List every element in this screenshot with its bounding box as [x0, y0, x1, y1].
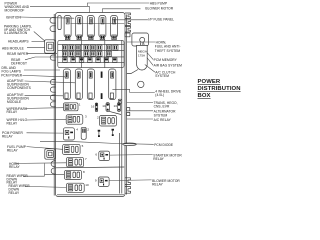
- svg-text:RELAY: RELAY: [9, 165, 20, 169]
- side connector C1 (headlamps/ABS feed): [45, 40, 56, 53]
- right mounting clip 5: [125, 187, 131, 194]
- side connector C2 (fuel pump feed): [45, 149, 56, 159]
- svg-text:I/P FUSE PANEL: I/P FUSE PANEL: [148, 17, 174, 21]
- left mounting clip 3: [50, 55, 55, 60]
- svg-text:8: 8: [83, 170, 85, 174]
- left mounting clip 4: [50, 80, 55, 85]
- wire: stud link: [141, 42, 143, 45]
- left mounting clip 2: [50, 26, 56, 32]
- right edge tab A: [125, 33, 130, 37]
- title: [198, 79, 241, 99]
- svg-text:THEFT SYSTEM: THEFT SYSTEM: [155, 49, 181, 53]
- wire: I/P fuse panel lead: [112, 19, 148, 21]
- right mounting clip 3: [125, 26, 131, 32]
- svg-text:4: 4: [76, 128, 78, 132]
- svg-text:POWER: POWER: [198, 79, 221, 85]
- wire: ignition lead: [20, 17, 74, 18]
- wire: PCM power relay lead: [27, 132, 64, 134]
- svg-text:13: 13: [114, 104, 118, 108]
- spring clip lower: [51, 168, 56, 174]
- right mounting clip 2: [125, 20, 131, 26]
- svg-text:MOONROOF: MOONROOF: [5, 8, 25, 12]
- maxi fuse slot M5: [111, 16, 118, 40]
- spare terminal marks: [101, 72, 103, 78]
- svg-text:CNS, EVR: CNS, EVR: [154, 105, 170, 109]
- wire: rear wiper down relay lead 2: [25, 186, 67, 187]
- wire: blower motor relay lead: [109, 179, 152, 182]
- wire: PCM diode lead: [120, 143, 154, 146]
- svg-text:2: 2: [97, 115, 99, 119]
- relay cavity slot S2: [75, 69, 82, 100]
- relay 6 square: [99, 151, 110, 160]
- maxi fuse row: [58, 16, 118, 40]
- svg-text:BLOWER MOTOR: BLOWER MOTOR: [145, 6, 173, 10]
- svg-text:RELAY: RELAY: [7, 122, 18, 126]
- wire: 4 wheel drive lead: [112, 89, 154, 92]
- power distribution box outline: [56, 13, 126, 197]
- svg-text:RELAY: RELAY: [152, 183, 163, 187]
- svg-text:ABS PUMP: ABS PUMP: [150, 2, 167, 6]
- right edge tab C: [127, 112, 130, 115]
- battery terminal stud: [140, 37, 145, 42]
- corner part: [118, 99, 121, 103]
- wire: horn/fuel/anti-theft lead: [127, 41, 155, 43]
- svg-text:9: 9: [95, 178, 97, 182]
- spring clip upper: [51, 161, 56, 167]
- relay 10: [66, 183, 84, 192]
- svg-text:14: 14: [102, 104, 106, 108]
- narrow fuse slot F0: [58, 16, 61, 30]
- right column labels: [145, 2, 182, 187]
- relay 7: [66, 157, 83, 167]
- wire: drop into box top: [88, 6, 90, 12]
- right mounting clip 1: [125, 13, 131, 19]
- svg-text:PCM DIODE: PCM DIODE: [154, 143, 174, 147]
- svg-text:COMPONENTS: COMPONENTS: [7, 86, 32, 90]
- part 16 (diode): [95, 103, 97, 112]
- diode part 11a: [98, 130, 101, 137]
- svg-text:1: 1: [79, 103, 81, 107]
- wire: bracket riser: [44, 163, 46, 176]
- left mounting clip 7: [50, 102, 55, 107]
- wire: blower motor lead: [102, 9, 140, 13]
- wire: fuel pump relay lead: [27, 147, 63, 150]
- relay 4 square: [63, 128, 74, 140]
- part 12 bar: [81, 127, 86, 139]
- box internal divider: [56, 166, 124, 169]
- wire: short diagonal to relay 2: [109, 111, 122, 114]
- svg-text:SYSTEM: SYSTEM: [155, 74, 169, 78]
- svg-text:SYSTEM: SYSTEM: [154, 113, 168, 117]
- wire mega fuse to box: [127, 70, 138, 74]
- wire: ABS module lead: [27, 47, 45, 49]
- right mounting clip 4: [125, 178, 131, 185]
- relay 9: [98, 177, 109, 186]
- mini fuse row 1: [62, 45, 67, 50]
- svg-text:7: 7: [85, 157, 87, 161]
- mini fuse row 3 (cartridge fuses): [63, 58, 68, 62]
- svg-text:175A: 175A: [138, 54, 145, 58]
- svg-text:AIR BAG SYSTEM: AIR BAG SYSTEM: [154, 64, 183, 68]
- stud circle (4wd feed): [138, 81, 144, 87]
- left mounting clip 6: [50, 95, 55, 100]
- left column labels: [1, 2, 32, 195]
- svg-text:RELAY: RELAY: [153, 157, 164, 161]
- svg-text:ILLUMINATION: ILLUMINATION: [4, 31, 28, 35]
- mini fuse row 2: [62, 51, 67, 56]
- left mounting clip 1: [50, 18, 56, 24]
- wire: headlamps lead: [32, 40, 45, 42]
- relay cavity slot S4: [109, 69, 116, 100]
- wire: wiper/park relay lead: [26, 107, 64, 110]
- wire: rear wiper down relay lead 1: [24, 175, 45, 177]
- svg-text:PCM POWER: PCM POWER: [1, 74, 23, 78]
- wire: adaptive suspension module lead: [25, 94, 64, 97]
- wire sleeve on PCM diode lead: [123, 143, 137, 146]
- wire: starter motor relay lead: [110, 154, 153, 157]
- diode part 11b: [112, 129, 115, 136]
- wire: PCM memory lead: [147, 53, 153, 60]
- svg-text:HEADLAMPS: HEADLAMPS: [8, 40, 29, 44]
- svg-text:2: 2: [87, 127, 89, 131]
- svg-text:RELAY: RELAY: [7, 110, 18, 114]
- wire: horn relay lead: [16, 162, 67, 165]
- wire: into relay 8: [45, 174, 65, 176]
- mini fuse band: [58, 40, 124, 67]
- svg-text:(4.0L): (4.0L): [155, 93, 164, 97]
- wire: A/C clutch system lead: [145, 65, 155, 73]
- maxi fuse slot M2: [76, 16, 83, 40]
- svg-text:RELAY: RELAY: [2, 135, 13, 139]
- wire: ABS pump lead: [87, 3, 149, 6]
- wire: interior bus line: [70, 22, 124, 24]
- stud collar: [140, 42, 144, 45]
- right edge tab B: [127, 108, 130, 111]
- relay cavity row: [63, 69, 116, 100]
- leader lines left: [16, 3, 150, 187]
- relay modules: [56, 99, 136, 192]
- fuse row separator lines: [58, 43, 124, 45]
- mega fuse text: [138, 50, 147, 58]
- svg-text:REAR WIPER: REAR WIPER: [7, 52, 29, 56]
- relay 2 wide: [100, 116, 117, 127]
- svg-text:RELAY: RELAY: [9, 191, 20, 195]
- wire: rear defrost lead: [25, 57, 58, 60]
- wire: DRL and fog lamps lead: [24, 69, 60, 71]
- wire: parking lamps lead: [34, 32, 45, 42]
- left mounting clip 5: [50, 87, 55, 92]
- part 13 (capacitor): [117, 103, 120, 112]
- relay cavity slot S1: [63, 69, 70, 100]
- wire: PCM diode internal run: [40, 142, 120, 144]
- wire: PCM power lead: [23, 75, 66, 76]
- svg-text:DISTRIBUTION: DISTRIBUTION: [198, 86, 241, 92]
- svg-text:RELAY: RELAY: [7, 148, 18, 152]
- maxi fuse slot M4: [99, 16, 106, 40]
- mini fuse block outline: [58, 40, 124, 67]
- svg-text:3: 3: [85, 115, 87, 119]
- relay 5: [63, 144, 81, 154]
- relay numbers: [76, 103, 117, 187]
- relay 3: [66, 115, 83, 125]
- wire: rear wiper lead: [27, 53, 57, 55]
- svg-text:16: 16: [91, 105, 95, 109]
- relay 1: [64, 103, 79, 111]
- svg-text:PCM MEMORY: PCM MEMORY: [154, 58, 178, 62]
- svg-text:DEFROST: DEFROST: [11, 61, 27, 65]
- wire: power windows lead: [30, 5, 89, 7]
- svg-text:A/C RELAY: A/C RELAY: [154, 118, 172, 122]
- wire: A/C relay lead: [127, 118, 154, 120]
- wire: adaptive suspension components lead: [25, 81, 76, 83]
- svg-text:IGNITION: IGNITION: [6, 16, 22, 20]
- svg-text:5: 5: [82, 144, 84, 148]
- mega fuse 175A body: [137, 45, 148, 70]
- relay 8: [64, 170, 81, 179]
- maxi fuse slot M3: [87, 16, 94, 40]
- svg-text:10: 10: [85, 183, 89, 187]
- wire: trans/hego lead: [127, 101, 154, 103]
- fuse block column divider: [81, 40, 83, 67]
- part 14 (capacitor): [106, 103, 109, 112]
- wire: wiper hi/lo relay lead: [27, 118, 66, 121]
- leader lines right: [102, 9, 155, 181]
- wire: alternator system lead: [127, 110, 154, 112]
- maxi fuse slot M1: [64, 16, 71, 40]
- svg-text:6: 6: [95, 152, 97, 156]
- svg-text:BOX: BOX: [198, 93, 211, 99]
- wire: air bag system lead: [147, 58, 153, 66]
- right externals: stud circle and mega fuse: [127, 33, 149, 88]
- svg-text:ABS MODULE: ABS MODULE: [2, 47, 25, 51]
- battery stud housing: [132, 33, 149, 46]
- relay cavity slot S3: [87, 69, 94, 100]
- svg-text:MODULE: MODULE: [7, 100, 22, 104]
